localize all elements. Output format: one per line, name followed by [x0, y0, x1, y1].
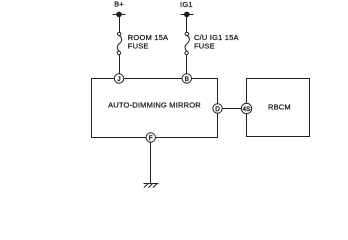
pin 4S circle: [241, 103, 251, 113]
wire pin D to pin 4S: [218, 108, 247, 110]
component box AUTO-DIMMING MIRROR: [92, 79, 218, 138]
fuse C/U IG1 15A element curve: [185, 36, 189, 52]
svg-text:D: D: [215, 106, 220, 113]
svg-text:IG1: IG1: [180, 0, 193, 9]
pin D circle: [213, 104, 222, 113]
svg-text:J: J: [117, 76, 120, 83]
fuse2 end circles: [185, 32, 188, 35]
pin B circle: [182, 74, 191, 83]
node IG1 terminal cross line: [181, 14, 194, 16]
svg-text:F: F: [149, 135, 153, 142]
wire pin F to ground: [150, 138, 152, 184]
node IG1 terminal dot: [184, 12, 190, 18]
svg-text:4S: 4S: [243, 106, 251, 113]
wire fuse2 to pin B: [186, 53, 188, 75]
wire fuse1 to pin J: [119, 53, 121, 75]
svg-text:RBCM: RBCM: [268, 103, 291, 112]
wire B+ to fuse1: [119, 15, 121, 33]
fuse1 end circles: [118, 32, 121, 35]
wire IG1 to fuse2: [186, 15, 188, 33]
svg-text:FUSE: FUSE: [128, 42, 149, 51]
node B+ terminal dot: [116, 12, 122, 18]
fuse ROOM 15A element curve: [117, 36, 121, 52]
svg-text:B+: B+: [114, 0, 124, 9]
svg-text:B: B: [185, 76, 189, 83]
component box RBCM: [247, 79, 310, 137]
svg-text:FUSE: FUSE: [194, 42, 215, 51]
ground: [144, 184, 159, 188]
pin J circle: [114, 74, 123, 83]
node B+ terminal cross line: [113, 14, 126, 16]
svg-text:AUTO-DIMMING MIRROR: AUTO-DIMMING MIRROR: [108, 101, 201, 110]
pin F circle: [146, 133, 155, 142]
